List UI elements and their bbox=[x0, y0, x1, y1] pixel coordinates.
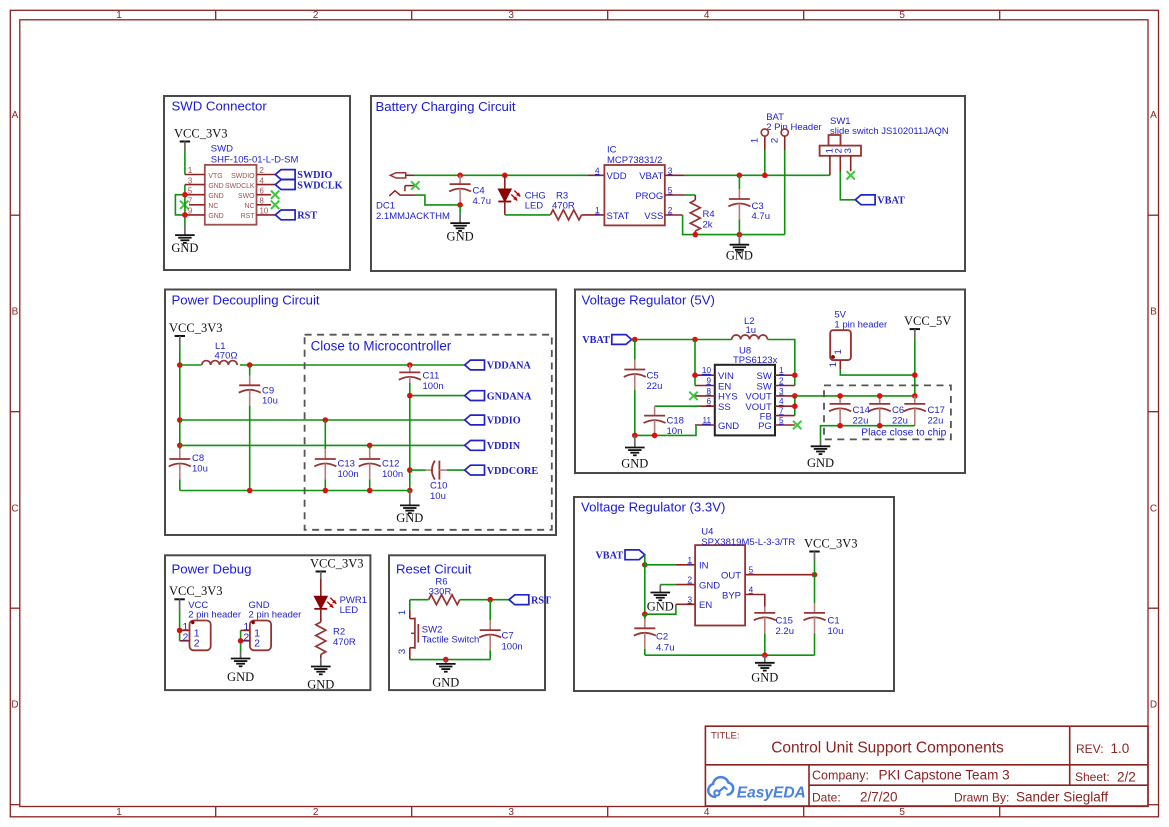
svg-text:2k: 2k bbox=[703, 220, 713, 231]
svg-text:Date:: Date: bbox=[812, 791, 841, 805]
svg-text:VCC_3V3: VCC_3V3 bbox=[169, 584, 222, 598]
svg-text:3: 3 bbox=[508, 10, 514, 21]
svg-text:VCC_3V3: VCC_3V3 bbox=[174, 126, 227, 140]
svg-text:GND: GND bbox=[647, 600, 674, 614]
svg-text:2: 2 bbox=[260, 166, 264, 175]
svg-text:C8: C8 bbox=[192, 453, 204, 464]
svg-text:22u: 22u bbox=[928, 416, 944, 427]
svg-text:D: D bbox=[1150, 700, 1157, 711]
svg-text:2: 2 bbox=[194, 638, 200, 650]
svg-text:A: A bbox=[1150, 110, 1157, 121]
svg-text:Place close to chip: Place close to chip bbox=[861, 428, 946, 439]
svg-text:B: B bbox=[1150, 307, 1157, 318]
svg-text:VDDIO: VDDIO bbox=[487, 416, 521, 427]
svg-text:GND: GND bbox=[396, 511, 423, 525]
svg-text:4.7u: 4.7u bbox=[473, 196, 492, 207]
svg-text:5: 5 bbox=[899, 807, 905, 818]
svg-text:VCC_5V: VCC_5V bbox=[904, 314, 951, 328]
svg-text:SWDIO: SWDIO bbox=[231, 173, 255, 180]
svg-text:470R: 470R bbox=[333, 637, 356, 648]
svg-text:LED: LED bbox=[340, 605, 359, 616]
svg-text:Sheet:: Sheet: bbox=[1075, 770, 1110, 784]
svg-text:Power Decoupling Circuit: Power Decoupling Circuit bbox=[172, 293, 320, 308]
svg-text:C10: C10 bbox=[430, 481, 447, 492]
svg-text:Voltage Regulator (5V): Voltage Regulator (5V) bbox=[582, 293, 715, 308]
svg-text:GND: GND bbox=[208, 193, 223, 200]
svg-text:SWO: SWO bbox=[238, 193, 255, 200]
svg-text:RST: RST bbox=[297, 211, 317, 222]
svg-text:2 Pin Header: 2 Pin Header bbox=[766, 122, 821, 133]
svg-text:22u: 22u bbox=[892, 416, 908, 427]
svg-text:2: 2 bbox=[243, 632, 249, 644]
svg-text:OUT: OUT bbox=[721, 571, 741, 582]
svg-text:4.7u: 4.7u bbox=[656, 643, 675, 654]
svg-text:EN: EN bbox=[718, 381, 731, 392]
svg-text:2: 2 bbox=[313, 10, 319, 21]
svg-text:VSS: VSS bbox=[644, 211, 663, 222]
svg-text:1.0: 1.0 bbox=[1111, 741, 1130, 756]
svg-text:SWD: SWD bbox=[211, 144, 233, 155]
svg-text:100n: 100n bbox=[338, 469, 359, 480]
svg-text:C: C bbox=[11, 504, 18, 515]
svg-text:Battery Charging Circuit: Battery Charging Circuit bbox=[376, 99, 516, 114]
svg-text:9: 9 bbox=[188, 207, 192, 216]
svg-text:VBAT: VBAT bbox=[595, 551, 623, 562]
svg-text:NC: NC bbox=[245, 203, 255, 210]
svg-text:1: 1 bbox=[397, 610, 408, 615]
svg-text:100n: 100n bbox=[502, 642, 523, 653]
svg-text:5: 5 bbox=[188, 186, 193, 195]
svg-text:R2: R2 bbox=[333, 627, 345, 638]
svg-text:VDDANA: VDDANA bbox=[487, 361, 532, 372]
svg-text:10u: 10u bbox=[192, 464, 208, 475]
svg-text:IN: IN bbox=[699, 561, 709, 572]
svg-text:1u: 1u bbox=[746, 325, 757, 336]
svg-text:7: 7 bbox=[188, 197, 192, 206]
svg-text:VBAT: VBAT bbox=[639, 171, 663, 182]
svg-text:SWDCLK: SWDCLK bbox=[297, 180, 342, 191]
svg-text:GND: GND bbox=[718, 421, 739, 432]
svg-text:Control Unit Support Component: Control Unit Support Components bbox=[771, 739, 1004, 756]
svg-text:SS: SS bbox=[718, 402, 731, 413]
svg-text:1: 1 bbox=[188, 166, 192, 175]
svg-text:EN: EN bbox=[699, 600, 712, 611]
svg-text:GND: GND bbox=[208, 213, 223, 220]
svg-text:MCP73831/2: MCP73831/2 bbox=[607, 155, 662, 166]
svg-text:PROG: PROG bbox=[635, 191, 663, 202]
svg-text:Power Debug: Power Debug bbox=[172, 562, 252, 577]
svg-text:D: D bbox=[11, 700, 18, 711]
svg-text:2: 2 bbox=[779, 377, 784, 386]
svg-text:1 pin header: 1 pin header bbox=[834, 320, 887, 331]
svg-text:4: 4 bbox=[704, 807, 710, 818]
svg-text:C1: C1 bbox=[828, 616, 840, 627]
svg-text:Drawn By:: Drawn By: bbox=[954, 791, 1009, 805]
svg-text:2: 2 bbox=[313, 807, 319, 818]
svg-text:VCC_3V3: VCC_3V3 bbox=[804, 536, 857, 550]
svg-text:Voltage Regulator (3.3V): Voltage Regulator (3.3V) bbox=[581, 500, 725, 515]
svg-text:SWDCLK: SWDCLK bbox=[225, 183, 255, 190]
svg-text:330R: 330R bbox=[429, 587, 452, 598]
svg-text:Company:: Company: bbox=[812, 768, 869, 782]
svg-text:SWD Connector: SWD Connector bbox=[172, 99, 268, 114]
svg-text:2 pin header: 2 pin header bbox=[249, 610, 302, 621]
svg-text:Close to Microcontroller: Close to Microcontroller bbox=[311, 339, 452, 354]
svg-text:22u: 22u bbox=[647, 381, 663, 392]
svg-text:100n: 100n bbox=[382, 469, 403, 480]
svg-text:VDD: VDD bbox=[607, 171, 627, 182]
svg-text:GND: GND bbox=[171, 241, 198, 255]
svg-text:2: 2 bbox=[182, 632, 188, 644]
svg-text:B: B bbox=[12, 307, 19, 318]
svg-text:C2: C2 bbox=[656, 632, 668, 643]
svg-text:2: 2 bbox=[254, 638, 260, 650]
svg-text:C4: C4 bbox=[473, 186, 485, 197]
svg-text:Tactile Switch: Tactile Switch bbox=[422, 635, 480, 646]
svg-text:2.2u: 2.2u bbox=[776, 626, 795, 637]
svg-text:2: 2 bbox=[769, 138, 780, 143]
svg-text:slide switch JS102011JAQN: slide switch JS102011JAQN bbox=[830, 126, 949, 137]
svg-text:BYP: BYP bbox=[722, 590, 741, 601]
svg-text:2/7/20: 2/7/20 bbox=[860, 790, 898, 805]
svg-text:VBAT: VBAT bbox=[877, 196, 905, 207]
svg-text:1: 1 bbox=[828, 362, 839, 367]
svg-text:GND: GND bbox=[432, 675, 459, 689]
svg-text:RST: RST bbox=[531, 595, 551, 606]
svg-text:3: 3 bbox=[188, 176, 192, 185]
svg-text:GND: GND bbox=[227, 670, 254, 684]
svg-text:470R: 470R bbox=[552, 201, 575, 212]
svg-text:3: 3 bbox=[397, 649, 408, 654]
svg-text:5: 5 bbox=[779, 416, 784, 425]
svg-text:470Ω: 470Ω bbox=[215, 350, 238, 361]
svg-text:C14: C14 bbox=[853, 405, 870, 416]
svg-text:SPX3819M5-L-3-3/TR: SPX3819M5-L-3-3/TR bbox=[701, 537, 795, 548]
svg-text:11: 11 bbox=[703, 416, 712, 425]
svg-text:VBAT: VBAT bbox=[582, 335, 610, 346]
svg-text:GND: GND bbox=[621, 457, 648, 471]
svg-text:6: 6 bbox=[260, 186, 264, 195]
svg-text:1: 1 bbox=[750, 138, 761, 143]
svg-text:1: 1 bbox=[116, 10, 122, 21]
svg-text:GND: GND bbox=[726, 249, 753, 263]
svg-text:GND: GND bbox=[447, 230, 474, 244]
svg-text:4.7u: 4.7u bbox=[752, 211, 771, 222]
svg-text:GNDANA: GNDANA bbox=[487, 391, 532, 402]
svg-text:PG: PG bbox=[758, 421, 772, 432]
svg-text:PKI Capstone Team 3: PKI Capstone Team 3 bbox=[879, 768, 1010, 783]
svg-text:2 pin header: 2 pin header bbox=[188, 610, 241, 621]
svg-text:3: 3 bbox=[779, 387, 784, 396]
svg-text:STAT: STAT bbox=[607, 211, 630, 222]
svg-text:2.1MMJACKTHM: 2.1MMJACKTHM bbox=[376, 211, 450, 222]
svg-text:10: 10 bbox=[260, 207, 269, 216]
svg-text:3: 3 bbox=[508, 807, 514, 818]
svg-text:TITLE:: TITLE: bbox=[711, 731, 740, 742]
svg-text:GND: GND bbox=[307, 678, 334, 692]
svg-text:5: 5 bbox=[899, 10, 905, 21]
svg-text:GND: GND bbox=[807, 456, 834, 470]
svg-text:C13: C13 bbox=[338, 459, 355, 470]
svg-text:NC: NC bbox=[208, 203, 218, 210]
svg-text:10u: 10u bbox=[262, 396, 278, 407]
svg-text:10u: 10u bbox=[430, 491, 446, 502]
svg-text:REV:: REV: bbox=[1076, 742, 1104, 756]
svg-text:EasyEDA: EasyEDA bbox=[737, 784, 806, 801]
svg-text:100n: 100n bbox=[423, 381, 444, 392]
svg-text:RST: RST bbox=[241, 213, 256, 220]
svg-text:4: 4 bbox=[704, 10, 710, 21]
svg-text:VDDCORE: VDDCORE bbox=[487, 466, 539, 477]
svg-text:SW: SW bbox=[756, 381, 771, 392]
svg-text:C: C bbox=[1150, 504, 1157, 515]
svg-text:C18: C18 bbox=[667, 416, 684, 427]
svg-text:C7: C7 bbox=[502, 631, 514, 642]
svg-text:GND: GND bbox=[751, 671, 778, 685]
svg-text:1: 1 bbox=[116, 807, 122, 818]
svg-text:1: 1 bbox=[833, 349, 844, 354]
svg-text:TPS6123x: TPS6123x bbox=[733, 355, 778, 366]
svg-text:8: 8 bbox=[706, 387, 711, 396]
svg-text:C5: C5 bbox=[647, 371, 659, 382]
svg-text:1: 1 bbox=[595, 206, 600, 215]
svg-text:4: 4 bbox=[260, 176, 265, 185]
svg-text:C17: C17 bbox=[928, 405, 945, 416]
svg-text:IC: IC bbox=[607, 145, 617, 156]
svg-text:C11: C11 bbox=[423, 371, 440, 382]
svg-text:A: A bbox=[12, 110, 19, 121]
svg-text:Reset Circuit: Reset Circuit bbox=[396, 562, 472, 577]
svg-text:C6: C6 bbox=[892, 405, 904, 416]
svg-text:GND: GND bbox=[208, 183, 223, 190]
svg-text:9: 9 bbox=[706, 377, 711, 386]
svg-text:22u: 22u bbox=[853, 416, 869, 427]
svg-text:R4: R4 bbox=[703, 209, 715, 220]
svg-text:C12: C12 bbox=[382, 459, 399, 470]
svg-text:C15: C15 bbox=[776, 616, 793, 627]
svg-text:SHF-105-01-L-D-SM: SHF-105-01-L-D-SM bbox=[211, 154, 299, 165]
svg-text:VCC_3V3: VCC_3V3 bbox=[310, 556, 363, 570]
svg-text:VDDIN: VDDIN bbox=[487, 441, 521, 452]
svg-text:2: 2 bbox=[668, 206, 673, 215]
svg-text:Sander Sieglaff: Sander Sieglaff bbox=[1016, 790, 1108, 805]
svg-text:VTG: VTG bbox=[208, 173, 222, 180]
svg-text:DC1: DC1 bbox=[376, 201, 395, 212]
svg-text:3: 3 bbox=[843, 148, 854, 153]
svg-text:2/2: 2/2 bbox=[1117, 769, 1136, 784]
svg-text:LED: LED bbox=[525, 201, 544, 212]
svg-text:10u: 10u bbox=[828, 626, 844, 637]
svg-text:8: 8 bbox=[260, 197, 264, 206]
svg-text:GND: GND bbox=[699, 580, 720, 591]
svg-text:VCC_3V3: VCC_3V3 bbox=[169, 321, 222, 335]
